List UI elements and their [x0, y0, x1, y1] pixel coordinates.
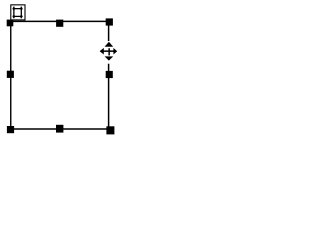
- selection rectangle right edge lower segment: [108, 64, 110, 131]
- selection rectangle bottom edge: [8, 128, 110, 130]
- background: [0, 0, 127, 146]
- shape icon inner frame bottom horizontal: [13, 15, 23, 17]
- move cursor left arrowhead: [100, 48, 104, 55]
- selection rectangle right edge upper segment: [108, 20, 110, 41]
- shape icon corner dot bottom-left: [13, 15, 15, 17]
- selection handle bottom-middle: [56, 125, 63, 133]
- selection handle bottom-right: [106, 126, 114, 134]
- move cursor right arrowhead: [113, 48, 117, 55]
- shape icon inner frame top horizontal: [13, 8, 23, 10]
- selection handle top-middle: [56, 20, 63, 27]
- selection handle bottom-left: [7, 126, 14, 133]
- shape icon corner dot bottom-right: [20, 15, 22, 17]
- move cursor horizontal bar: [103, 50, 114, 52]
- selection handle top-right: [106, 18, 113, 25]
- shape icon corner dot top-left: [13, 8, 15, 10]
- move cursor white halo: [100, 42, 118, 61]
- selection rectangle top edge: [8, 20, 109, 22]
- shape icon outer square: [11, 5, 25, 20]
- selection handle middle-left: [7, 71, 14, 78]
- move cursor vertical bar: [108, 48, 110, 55]
- shape icon inner frame left vertical: [13, 7, 15, 19]
- selection handle top-left: [7, 20, 14, 27]
- shape icon corner dot top-right: [20, 8, 22, 10]
- shape icon inner frame right vertical: [20, 7, 22, 19]
- selection handle middle-right: [106, 71, 113, 78]
- move cursor down arrowhead: [105, 56, 114, 60]
- move cursor up arrowhead: [105, 42, 114, 47]
- selection rectangle left edge: [10, 20, 12, 130]
